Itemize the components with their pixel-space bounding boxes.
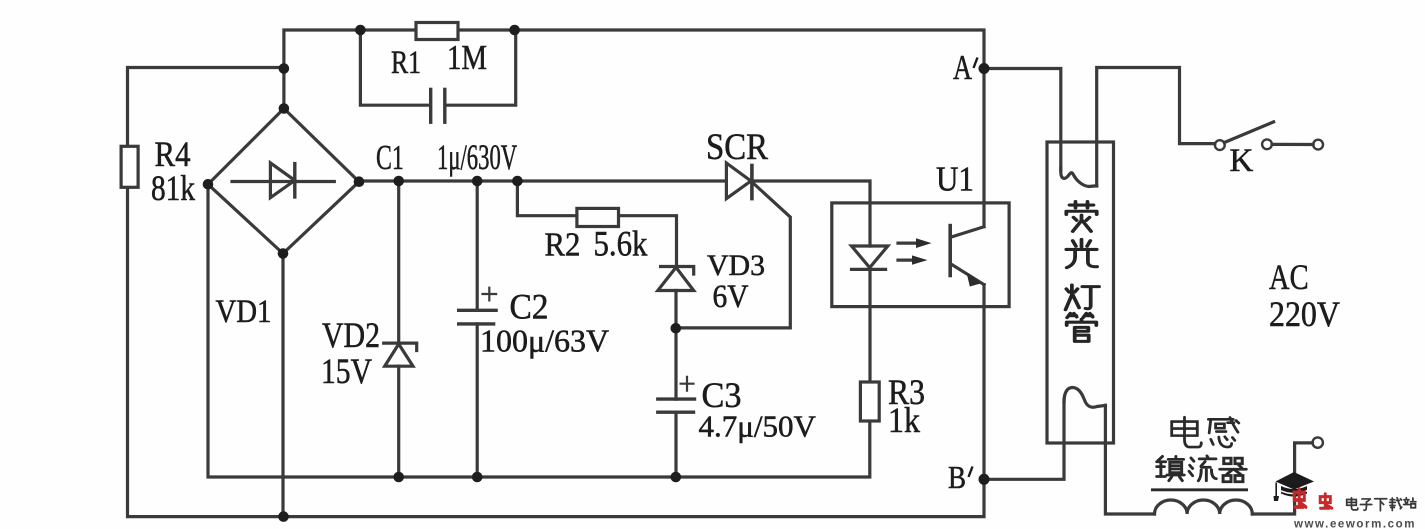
svg-text:A: A: [953, 47, 973, 87]
svg-text:C2: C2: [510, 286, 549, 326]
svg-text:B: B: [948, 461, 966, 496]
svg-text:81k: 81k: [151, 169, 196, 208]
svg-text:15V: 15V: [321, 352, 372, 391]
svg-text:4.7μ/50V: 4.7μ/50V: [699, 409, 817, 444]
svg-text:6V: 6V: [713, 277, 749, 314]
svg-text:AC: AC: [1269, 258, 1309, 298]
svg-text:VD2: VD2: [322, 317, 380, 356]
svg-text:1μ/630V: 1μ/630V: [437, 137, 517, 178]
svg-text:K: K: [1230, 143, 1254, 179]
svg-text:1M: 1M: [447, 37, 487, 76]
svg-text:R2: R2: [545, 226, 581, 264]
svg-text:C1: C1: [376, 139, 404, 178]
svg-text:www.eeworm.com: www.eeworm.com: [1293, 519, 1417, 529]
svg-text:SCR: SCR: [706, 126, 769, 167]
svg-text:U1: U1: [936, 161, 974, 199]
svg-text:1k: 1k: [888, 401, 921, 440]
svg-text:220V: 220V: [1269, 295, 1340, 334]
svg-text:5.6k: 5.6k: [594, 224, 648, 264]
svg-text:VD1: VD1: [216, 292, 272, 329]
svg-text:100μ/63V: 100μ/63V: [480, 323, 609, 359]
svg-text:R1: R1: [391, 45, 421, 81]
